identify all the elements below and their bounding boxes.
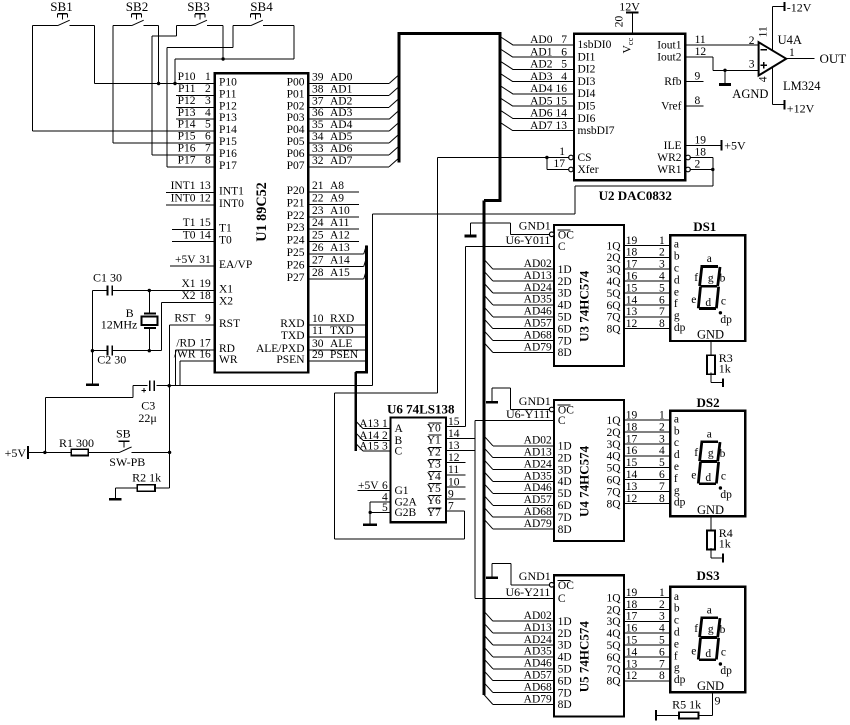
svg-text:6: 6 <box>561 46 567 58</box>
svg-text:8Q: 8Q <box>606 498 621 510</box>
svg-text:INT1: INT1 <box>219 186 244 198</box>
svg-text:INT1: INT1 <box>171 180 196 192</box>
svg-text:1: 1 <box>659 235 665 247</box>
svg-text:P26: P26 <box>287 260 305 272</box>
svg-text:4Q: 4Q <box>606 276 621 288</box>
svg-text:LM324: LM324 <box>783 79 821 93</box>
svg-text:dp: dp <box>720 665 732 677</box>
svg-text:SB: SB <box>116 426 131 440</box>
svg-text:1: 1 <box>659 410 665 422</box>
svg-text:A15: A15 <box>359 441 379 453</box>
svg-text:f: f <box>694 272 698 284</box>
svg-text:7D: 7D <box>558 687 572 699</box>
svg-text:30: 30 <box>312 338 324 350</box>
svg-text:G2B: G2B <box>395 507 417 519</box>
svg-text:c: c <box>674 263 679 275</box>
svg-text:AD68: AD68 <box>524 329 552 341</box>
svg-text:AD7: AD7 <box>530 120 553 132</box>
svg-text:P11: P11 <box>219 88 237 100</box>
svg-text:C: C <box>395 446 403 458</box>
svg-text:GND: GND <box>697 679 724 693</box>
svg-text:-12V: -12V <box>787 0 812 14</box>
svg-text:DI2: DI2 <box>578 64 596 76</box>
svg-text:GND1: GND1 <box>519 394 551 408</box>
svg-text:C2 30: C2 30 <box>97 353 126 367</box>
svg-text:2Q: 2Q <box>606 252 621 264</box>
svg-text:19: 19 <box>626 235 638 247</box>
svg-text:12: 12 <box>626 318 638 330</box>
svg-text:P16: P16 <box>178 143 196 155</box>
svg-text:3D: 3D <box>558 464 572 476</box>
svg-text:AD6: AD6 <box>330 143 353 155</box>
svg-text:Y3: Y3 <box>427 459 441 471</box>
svg-text:dp: dp <box>674 674 686 686</box>
svg-text:A13: A13 <box>330 242 350 254</box>
svg-text:35: 35 <box>312 119 324 131</box>
svg-text:P15: P15 <box>219 136 237 148</box>
svg-text:P12: P12 <box>178 95 196 107</box>
svg-text:14: 14 <box>626 646 638 658</box>
svg-text:A9: A9 <box>330 192 344 204</box>
svg-text:dp: dp <box>674 497 686 509</box>
svg-text:P16: P16 <box>219 148 237 160</box>
svg-text:4D: 4D <box>558 300 572 312</box>
svg-text:d: d <box>674 449 680 461</box>
svg-text:g: g <box>708 448 714 460</box>
svg-text:msbDI7: msbDI7 <box>578 125 615 137</box>
svg-text:DS3: DS3 <box>697 568 721 583</box>
svg-text:C: C <box>558 593 566 605</box>
svg-text:5D: 5D <box>558 312 572 324</box>
svg-text:5: 5 <box>659 635 665 647</box>
svg-text:c: c <box>721 647 726 659</box>
svg-text:6: 6 <box>659 294 665 306</box>
svg-text:AGND: AGND <box>732 87 768 101</box>
svg-text:d: d <box>705 297 711 309</box>
svg-text:g: g <box>708 624 714 636</box>
svg-text:P27: P27 <box>287 272 305 284</box>
svg-text:a: a <box>707 604 712 616</box>
svg-text:OC: OC <box>558 229 574 241</box>
svg-text:3D: 3D <box>558 288 572 300</box>
svg-text:g: g <box>674 485 680 497</box>
svg-text:2D: 2D <box>558 276 572 288</box>
svg-text:2: 2 <box>659 421 665 433</box>
svg-text:+5V: +5V <box>175 254 196 266</box>
svg-text:9: 9 <box>205 313 211 325</box>
svg-text:AD02: AD02 <box>524 435 552 447</box>
svg-text:R1 300: R1 300 <box>59 436 94 450</box>
svg-text:8Q: 8Q <box>606 324 621 336</box>
svg-text:18: 18 <box>626 421 638 433</box>
svg-text:2: 2 <box>659 599 665 611</box>
svg-text:AD2: AD2 <box>530 59 553 71</box>
svg-text:Rfb: Rfb <box>664 76 682 88</box>
svg-text:AD46: AD46 <box>524 658 552 670</box>
svg-text:P21: P21 <box>287 197 305 209</box>
svg-text:DI5: DI5 <box>578 101 596 113</box>
svg-text:T1: T1 <box>183 217 196 229</box>
svg-text:P17: P17 <box>219 160 237 172</box>
svg-text:2Q: 2Q <box>606 427 621 439</box>
svg-text:SB2: SB2 <box>126 0 148 14</box>
svg-text:5: 5 <box>659 457 665 469</box>
svg-text:AD5: AD5 <box>530 95 553 107</box>
svg-text:GND: GND <box>697 328 724 342</box>
svg-text:1Q: 1Q <box>606 240 621 252</box>
svg-text:11: 11 <box>758 26 770 37</box>
svg-text:3: 3 <box>749 59 755 71</box>
svg-text:X1: X1 <box>181 278 195 290</box>
svg-text:TXD: TXD <box>281 330 305 342</box>
svg-text:8D: 8D <box>558 699 572 711</box>
svg-text:19: 19 <box>695 134 707 146</box>
svg-text:1Q: 1Q <box>606 592 621 604</box>
svg-text:+5V: +5V <box>5 446 27 460</box>
svg-text:G1: G1 <box>395 485 409 497</box>
svg-text:+12V: +12V <box>787 101 815 115</box>
svg-text:d: d <box>674 627 680 639</box>
svg-text:3: 3 <box>659 259 665 271</box>
svg-text:7: 7 <box>561 34 567 46</box>
svg-text:a: a <box>674 413 679 425</box>
svg-text:16: 16 <box>556 83 568 95</box>
svg-text:3Q: 3Q <box>606 264 621 276</box>
svg-text:g: g <box>708 272 714 284</box>
svg-text:4D: 4D <box>558 652 572 664</box>
svg-text:17: 17 <box>554 158 566 170</box>
svg-text:U6-Y211: U6-Y211 <box>506 585 551 599</box>
svg-text:5: 5 <box>382 502 388 514</box>
svg-text:39: 39 <box>312 72 324 84</box>
svg-text:AD0: AD0 <box>330 72 353 84</box>
svg-text:7D: 7D <box>558 335 572 347</box>
svg-text:6D: 6D <box>558 675 572 687</box>
svg-text:5Q: 5Q <box>606 288 621 300</box>
svg-text:18: 18 <box>199 290 211 302</box>
svg-text:AD68: AD68 <box>524 506 552 518</box>
svg-text:g: g <box>674 662 680 674</box>
svg-text:31: 31 <box>199 254 211 266</box>
svg-text:P13: P13 <box>178 107 196 119</box>
svg-text:AD35: AD35 <box>524 646 552 658</box>
svg-text:e: e <box>691 294 696 306</box>
svg-text:23: 23 <box>312 205 324 217</box>
svg-text:24: 24 <box>312 217 324 229</box>
svg-text:CS: CS <box>578 152 592 164</box>
svg-text:18: 18 <box>695 147 707 159</box>
svg-text:e: e <box>691 645 696 657</box>
svg-text:5D: 5D <box>558 488 572 500</box>
svg-text:2: 2 <box>695 158 701 170</box>
svg-text:19: 19 <box>626 587 638 599</box>
svg-text:6: 6 <box>659 469 665 481</box>
svg-text:f: f <box>694 447 698 459</box>
svg-text:P00: P00 <box>287 77 305 89</box>
svg-text:AD24: AD24 <box>524 634 552 646</box>
svg-text:AD68: AD68 <box>524 681 552 693</box>
svg-text:X1: X1 <box>219 284 233 296</box>
svg-text:4: 4 <box>659 623 665 635</box>
svg-text:dp: dp <box>720 489 732 501</box>
svg-text:3Q: 3Q <box>606 439 621 451</box>
svg-text:R2 1k: R2 1k <box>132 470 161 484</box>
svg-text:1: 1 <box>559 146 565 158</box>
svg-text:AD79: AD79 <box>524 518 552 530</box>
svg-text:13: 13 <box>556 120 568 132</box>
svg-text:U6-Y111: U6-Y111 <box>506 407 550 421</box>
svg-text:AD02: AD02 <box>524 610 552 622</box>
svg-text:3Q: 3Q <box>606 616 621 628</box>
svg-text:16: 16 <box>626 445 638 457</box>
svg-text:4: 4 <box>659 445 665 457</box>
svg-text:10: 10 <box>312 313 324 325</box>
svg-text:P15: P15 <box>178 131 196 143</box>
svg-text:15: 15 <box>556 95 568 107</box>
svg-text:T0: T0 <box>183 229 196 241</box>
svg-text:AD1: AD1 <box>330 83 353 95</box>
svg-text:AD79: AD79 <box>524 341 552 353</box>
svg-text:4Q: 4Q <box>606 451 621 463</box>
svg-text:2D: 2D <box>558 452 572 464</box>
svg-text:INT0: INT0 <box>219 198 244 210</box>
svg-text:28: 28 <box>312 267 324 279</box>
svg-text:6Q: 6Q <box>606 652 621 664</box>
svg-text:P22: P22 <box>287 210 305 222</box>
svg-text:7: 7 <box>659 306 665 318</box>
svg-text:AD57: AD57 <box>524 670 552 682</box>
svg-text:Y6: Y6 <box>427 495 441 507</box>
svg-text:c: c <box>674 615 679 627</box>
svg-text:17: 17 <box>199 337 211 349</box>
svg-text:P14: P14 <box>219 124 237 136</box>
svg-text:3: 3 <box>659 433 665 445</box>
svg-text:13: 13 <box>626 481 638 493</box>
svg-text:dp: dp <box>720 314 732 326</box>
svg-text:P01: P01 <box>287 88 305 100</box>
svg-text:AD2: AD2 <box>330 95 353 107</box>
svg-text:ILE: ILE <box>664 140 682 152</box>
svg-text:2Q: 2Q <box>606 604 621 616</box>
svg-text:b: b <box>674 251 680 263</box>
svg-text:15: 15 <box>626 457 638 469</box>
svg-text:DS1: DS1 <box>693 219 716 234</box>
svg-text:8D: 8D <box>558 524 572 536</box>
svg-text:26: 26 <box>312 242 324 254</box>
svg-text:U4 74HC574: U4 74HC574 <box>577 445 592 517</box>
svg-text:AD3: AD3 <box>330 107 353 119</box>
svg-text:f: f <box>674 298 678 310</box>
svg-text:14: 14 <box>199 229 211 241</box>
svg-text:OC: OC <box>558 580 574 592</box>
svg-text:15: 15 <box>626 635 638 647</box>
svg-text:DS2: DS2 <box>697 395 720 410</box>
svg-text:32: 32 <box>312 155 324 167</box>
svg-text:INT0: INT0 <box>171 193 196 205</box>
svg-text:5Q: 5Q <box>606 640 621 652</box>
svg-text:A15: A15 <box>330 267 350 279</box>
svg-text:22: 22 <box>312 192 324 204</box>
svg-text:DI4: DI4 <box>578 88 596 100</box>
svg-text:e: e <box>691 469 696 481</box>
svg-text:4: 4 <box>561 71 567 83</box>
svg-text:7Q: 7Q <box>606 312 621 324</box>
svg-text:5D: 5D <box>558 664 572 676</box>
svg-text:U2 DAC0832: U2 DAC0832 <box>599 188 672 203</box>
svg-text:AD24: AD24 <box>524 282 552 294</box>
svg-text:C1 30: C1 30 <box>93 270 122 284</box>
svg-text:EA/VP: EA/VP <box>219 259 252 271</box>
svg-text:a: a <box>707 253 712 265</box>
svg-text:8Q: 8Q <box>606 676 621 688</box>
svg-text:P02: P02 <box>287 100 305 112</box>
svg-text:4: 4 <box>758 76 770 82</box>
svg-text:1D: 1D <box>558 441 572 453</box>
svg-text:1Q: 1Q <box>606 415 621 427</box>
svg-text:17: 17 <box>626 433 638 445</box>
svg-text:d: d <box>674 274 680 286</box>
svg-text:16: 16 <box>626 623 638 635</box>
svg-text:A12: A12 <box>330 230 350 242</box>
svg-text:P20: P20 <box>287 185 305 197</box>
svg-text:12V: 12V <box>619 0 640 13</box>
svg-text:14: 14 <box>626 294 638 306</box>
svg-text:PSEN: PSEN <box>330 349 359 361</box>
svg-text:2: 2 <box>205 83 211 95</box>
svg-text:8: 8 <box>659 318 665 330</box>
svg-text:X2: X2 <box>181 290 195 302</box>
svg-text:d: d <box>705 472 711 484</box>
svg-text:+5V: +5V <box>724 138 746 152</box>
svg-text:DI1: DI1 <box>578 51 596 63</box>
svg-text:13: 13 <box>199 180 211 192</box>
svg-text:b: b <box>720 624 726 636</box>
svg-text:P10: P10 <box>178 71 196 83</box>
svg-text:21: 21 <box>312 180 324 192</box>
svg-text:SB3: SB3 <box>187 0 209 14</box>
svg-text:U5 74HC574: U5 74HC574 <box>577 621 592 693</box>
svg-text:1: 1 <box>789 47 795 59</box>
svg-text:AD57: AD57 <box>524 494 552 506</box>
svg-text:f: f <box>674 650 678 662</box>
svg-text:AD7: AD7 <box>330 155 353 167</box>
svg-text:19: 19 <box>199 278 211 290</box>
svg-text:18: 18 <box>626 247 638 259</box>
svg-text:14: 14 <box>556 108 568 120</box>
svg-text:Y0: Y0 <box>427 422 441 434</box>
svg-text:AD3: AD3 <box>530 71 553 83</box>
svg-text:1D: 1D <box>558 264 572 276</box>
svg-text:5: 5 <box>659 282 665 294</box>
svg-text:P04: P04 <box>287 124 305 136</box>
svg-text:8: 8 <box>659 493 665 505</box>
svg-text:P14: P14 <box>178 119 196 131</box>
svg-text:6D: 6D <box>558 323 572 335</box>
svg-text:17: 17 <box>626 611 638 623</box>
svg-text:AD79: AD79 <box>524 693 552 705</box>
svg-text:6Q: 6Q <box>606 300 621 312</box>
svg-text:GND: GND <box>697 503 724 517</box>
svg-text:27: 27 <box>312 255 324 267</box>
svg-text:P25: P25 <box>287 247 305 259</box>
svg-text:1: 1 <box>382 418 388 430</box>
svg-text:/RD: /RD <box>176 337 195 349</box>
svg-text:f: f <box>674 473 678 485</box>
svg-text:RXD: RXD <box>280 318 304 330</box>
svg-text:SB4: SB4 <box>250 0 273 14</box>
svg-text:11: 11 <box>695 34 706 46</box>
svg-text:AD5: AD5 <box>330 131 353 143</box>
svg-text:5: 5 <box>561 59 567 71</box>
svg-text:1sbDI0: 1sbDI0 <box>578 39 612 51</box>
svg-text:a: a <box>674 591 679 603</box>
svg-text:A14: A14 <box>330 255 350 267</box>
svg-text:P05: P05 <box>287 136 305 148</box>
svg-text:15: 15 <box>626 282 638 294</box>
svg-text:e: e <box>674 286 679 298</box>
svg-text:2: 2 <box>659 247 665 259</box>
svg-text:9: 9 <box>695 71 701 83</box>
svg-text:8: 8 <box>659 670 665 682</box>
svg-text:3: 3 <box>205 95 211 107</box>
svg-text:13: 13 <box>626 658 638 670</box>
svg-text:a: a <box>707 428 712 440</box>
svg-text:d: d <box>705 648 711 660</box>
svg-text:1D: 1D <box>558 616 572 628</box>
svg-text:P07: P07 <box>287 160 305 172</box>
svg-text:22μ: 22μ <box>138 411 156 425</box>
svg-text:4: 4 <box>205 107 211 119</box>
svg-text:c: c <box>721 471 726 483</box>
svg-text:b: b <box>674 603 680 615</box>
svg-text:Y7: Y7 <box>427 507 441 519</box>
svg-text:6D: 6D <box>558 500 572 512</box>
svg-text:U4A: U4A <box>778 33 802 47</box>
svg-text:7: 7 <box>205 143 211 155</box>
svg-text:7: 7 <box>659 481 665 493</box>
svg-text:b: b <box>674 425 680 437</box>
svg-text:12: 12 <box>626 493 638 505</box>
svg-text:A13: A13 <box>359 418 379 430</box>
svg-text:4D: 4D <box>558 476 572 488</box>
svg-text:T1: T1 <box>219 222 232 234</box>
svg-text:U6-Y011: U6-Y011 <box>506 233 551 247</box>
svg-text:DI6: DI6 <box>578 113 596 125</box>
svg-text:37: 37 <box>312 95 324 107</box>
svg-text:e: e <box>674 638 679 650</box>
svg-text:ALE: ALE <box>330 338 352 350</box>
svg-text:Xfer: Xfer <box>578 164 599 176</box>
svg-text:7Q: 7Q <box>606 486 621 498</box>
svg-text:P13: P13 <box>219 112 237 124</box>
svg-text:9: 9 <box>715 694 721 708</box>
svg-text:P23: P23 <box>287 222 305 234</box>
svg-text:Y4: Y4 <box>427 471 441 483</box>
svg-text:AD4: AD4 <box>530 83 553 95</box>
svg-text:16: 16 <box>626 271 638 283</box>
svg-text:g: g <box>674 310 680 322</box>
svg-text:/WR: /WR <box>174 349 196 361</box>
svg-text:1k: 1k <box>719 361 731 375</box>
svg-text:33: 33 <box>312 143 324 155</box>
svg-text:7Q: 7Q <box>606 664 621 676</box>
svg-text:2D: 2D <box>558 628 572 640</box>
svg-text:WR: WR <box>219 354 238 366</box>
svg-text:12: 12 <box>695 46 707 58</box>
svg-text:AD13: AD13 <box>524 447 552 459</box>
svg-text:SB1: SB1 <box>50 0 72 14</box>
svg-text:3: 3 <box>659 611 665 623</box>
